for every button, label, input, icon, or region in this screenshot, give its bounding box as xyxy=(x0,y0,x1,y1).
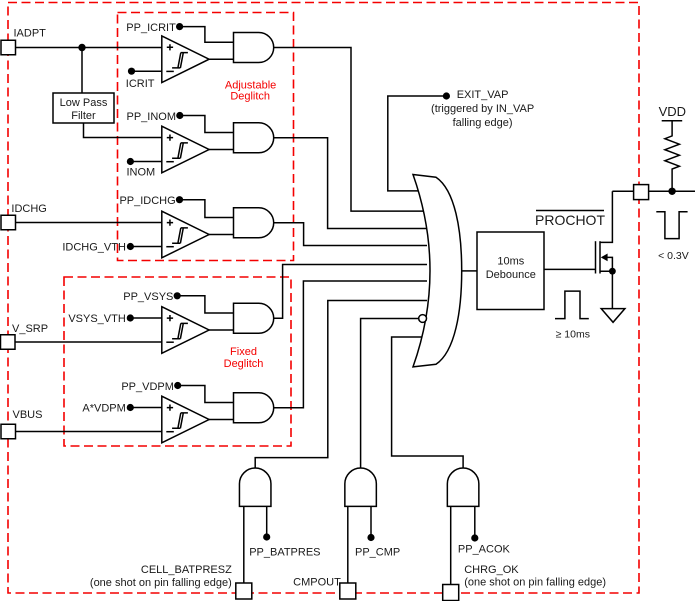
wire Q1 drain to PROCHOT pin xyxy=(612,190,633,192)
wire EXIT_VAP to OR G1 xyxy=(388,96,447,191)
node PP_VDPM xyxy=(174,382,181,389)
AND gate A1 xyxy=(234,33,274,63)
waveform >= 10ms pulse xyxy=(555,291,589,319)
svg-text:(one shot on pin falling edge): (one shot on pin falling edge) xyxy=(464,577,606,589)
pin IDCHG xyxy=(1,215,16,230)
wire AND A3 out to OR G1 xyxy=(274,223,427,246)
svg-text:CMPOUT: CMPOUT xyxy=(293,577,341,589)
wire IDCHG to comparator U3 + xyxy=(16,222,163,224)
wire LPF output to comparator U2 + xyxy=(84,123,163,138)
svg-text:PP_BATPRES: PP_BATPRES xyxy=(249,546,320,558)
pin V_SRP xyxy=(1,335,16,350)
wire debounce out to Q1 gate xyxy=(544,268,596,270)
wire AND B2 (PP_CMP) out to OR G1 bubble xyxy=(361,319,419,469)
wire VSYS_VTH stub xyxy=(130,317,162,319)
AND gate A3 xyxy=(234,208,274,238)
AND gate A4 xyxy=(234,303,274,333)
wire A*VDPM stub xyxy=(130,407,162,409)
svg-text:(triggered by IN_VAP: (triggered by IN_VAP xyxy=(431,103,534,115)
node ICRIT xyxy=(128,68,135,75)
node PP_BATPRES xyxy=(263,533,270,540)
svg-text:PP_VDPM: PP_VDPM xyxy=(121,381,174,393)
pin CHRG_OK xyxy=(443,585,459,601)
wire comparator U1 out to AND A1 xyxy=(205,58,234,60)
svg-text:PP_ICRIT: PP_ICRIT xyxy=(126,22,176,34)
AND gate A2 xyxy=(234,123,274,153)
svg-text:Deglitch: Deglitch xyxy=(230,91,270,103)
comparator U2 (INOM) xyxy=(162,126,209,173)
svg-text:ICRIT: ICRIT xyxy=(126,78,155,90)
wire PP_INOM to AND A2 xyxy=(180,116,235,133)
wire AND B1 input stub to PP_BATPRES xyxy=(266,506,268,537)
comparator U1 (ICRIT) xyxy=(162,36,209,83)
svg-text:CELL_BATPRESZ: CELL_BATPRESZ xyxy=(141,564,232,576)
svg-text:IADPT: IADPT xyxy=(14,28,47,40)
svg-text:CHRG_OK: CHRG_OK xyxy=(464,564,519,576)
pin IADPT xyxy=(1,40,16,55)
svg-text:(one shot on pin falling edge): (one shot on pin falling edge) xyxy=(90,577,232,589)
svg-text:< 0.3V: < 0.3V xyxy=(658,250,689,262)
comparator U5 (VDPM) xyxy=(162,396,209,443)
pin VBUS xyxy=(1,424,16,439)
wire PROCHOT pin to pull-up xyxy=(649,190,695,192)
wire PP_VSYS to AND A4 xyxy=(177,296,234,313)
wire AND A5 out to OR G1 xyxy=(274,281,427,408)
svg-text:falling edge): falling edge) xyxy=(453,117,513,129)
wire IDCHG_VTH stub xyxy=(130,246,162,248)
node IDCHG_VTH xyxy=(127,243,134,250)
wire junction to low-pass filter xyxy=(81,48,83,94)
ground xyxy=(601,309,625,323)
svg-text:PP_CMP: PP_CMP xyxy=(355,547,400,559)
low pass filter box xyxy=(53,93,114,123)
node PP_INOM xyxy=(176,112,183,119)
svg-text:Deglitch: Deglitch xyxy=(224,358,264,370)
wire INOM stub xyxy=(130,161,162,163)
node PP_ICRIT xyxy=(176,23,183,30)
svg-text:PROCHOT: PROCHOT xyxy=(535,212,605,228)
svg-text:VBUS: VBUS xyxy=(13,409,43,421)
comparator U3 (IDCHG) xyxy=(162,211,209,258)
fixed deglitch box (red dashed) xyxy=(64,277,291,446)
wire AND A1 out to OR G1 xyxy=(274,48,427,212)
wire IADPT to comparator U1 + xyxy=(16,47,163,49)
node PP_IDCHG xyxy=(176,196,183,203)
wire PP_VDPM to AND A5 xyxy=(178,386,235,403)
resistor R1 pull-up xyxy=(665,121,680,192)
wire CELL_BATPRESZ pin to AND B1 xyxy=(243,506,245,583)
svg-text:PP_IDCHG: PP_IDCHG xyxy=(119,195,175,207)
wire PP_IDCHG to AND A3 xyxy=(180,200,235,218)
svg-text:PP_ACOK: PP_ACOK xyxy=(458,543,511,555)
wire CMPOUT pin to AND B2 xyxy=(347,506,349,583)
adjustable deglitch box (red dashed) xyxy=(118,13,294,261)
svg-text:PP_INOM: PP_INOM xyxy=(126,111,176,123)
svg-text:Debounce: Debounce xyxy=(486,269,536,281)
node Q1 source xyxy=(609,268,616,275)
wire AND A2 out to OR G1 xyxy=(274,138,427,229)
wire AND B2 input stub to PP_CMP xyxy=(370,506,372,537)
waveform < 0.3V xyxy=(656,212,687,239)
wire AND B3 (PP_ACOK) out to OR G1 xyxy=(392,337,464,469)
wire comparator U2 out to AND A2 xyxy=(205,149,234,151)
wire comparator U4 out to AND A4 xyxy=(205,329,234,331)
pin CELL_BATPRESZ xyxy=(236,583,252,599)
node EXIT_VAP xyxy=(443,92,450,99)
VDD supply xyxy=(662,120,683,122)
10ms debounce box xyxy=(477,232,544,310)
svg-text:10ms: 10ms xyxy=(497,256,524,268)
pin CMPOUT xyxy=(340,583,356,599)
wire AND B1 (PP_BATPRES) out to OR G1 xyxy=(255,301,427,469)
svg-text:EXIT_VAP: EXIT_VAP xyxy=(457,89,509,101)
svg-text:IDCHG: IDCHG xyxy=(11,203,46,215)
svg-text:VDD: VDD xyxy=(659,104,686,119)
inversion bubble on OR G1 input xyxy=(419,315,427,323)
wire ICRIT stub xyxy=(132,70,163,72)
svg-text:IDCHG_VTH: IDCHG_VTH xyxy=(62,242,126,254)
svg-text:VSYS_VTH: VSYS_VTH xyxy=(68,313,126,325)
AND gate B3 (PP_ACOK) xyxy=(447,468,479,506)
svg-text:≥ 10ms: ≥ 10ms xyxy=(556,329,590,341)
comparator U4 (VSYS) xyxy=(162,307,209,354)
wire VBUS to comparator U5 - xyxy=(16,431,163,433)
node PP_ACOK xyxy=(471,534,478,541)
svg-text:Fixed: Fixed xyxy=(230,346,257,358)
pin PROCHOT xyxy=(634,185,649,200)
svg-text:Filter: Filter xyxy=(71,110,96,122)
node PP_VSYS xyxy=(174,292,181,299)
node IADPT/LPF junction xyxy=(78,44,85,51)
AND gate B2 (PP_CMP) xyxy=(345,468,377,506)
wire comparator U3 out to AND A3 xyxy=(205,234,234,236)
AND gate B1 (PP_BATPRES) xyxy=(239,468,271,506)
svg-text:Low Pass: Low Pass xyxy=(60,97,108,109)
transistor Q1 (N-MOSFET) xyxy=(596,191,613,308)
wire comparator U5 out to AND A5 xyxy=(205,419,234,421)
svg-text:INOM: INOM xyxy=(127,166,156,178)
node PP_CMP xyxy=(367,534,374,541)
node VSYS_VTH xyxy=(127,314,134,321)
svg-text:A*VDPM: A*VDPM xyxy=(82,403,125,415)
wire CHRG_OK pin to AND B3 xyxy=(450,506,452,584)
AND gate A5 xyxy=(234,393,274,423)
wire PP_ICRIT to AND A1 xyxy=(180,27,235,43)
node pull-up junction xyxy=(668,188,675,195)
svg-text:Adjustable: Adjustable xyxy=(225,79,276,91)
wire OR G1 out to debounce xyxy=(462,270,477,272)
svg-text:V_SRP: V_SRP xyxy=(12,323,48,335)
wire V_SRP to comparator U4 - xyxy=(15,341,162,343)
wire AND A4 out to OR G1 xyxy=(274,265,427,319)
wire AND B3 input stub to PP_ACOK xyxy=(474,506,476,538)
svg-text:PP_VSYS: PP_VSYS xyxy=(123,291,173,303)
node INOM xyxy=(127,158,134,165)
node A*VDPM xyxy=(127,404,134,411)
OR gate G1 xyxy=(413,175,462,367)
